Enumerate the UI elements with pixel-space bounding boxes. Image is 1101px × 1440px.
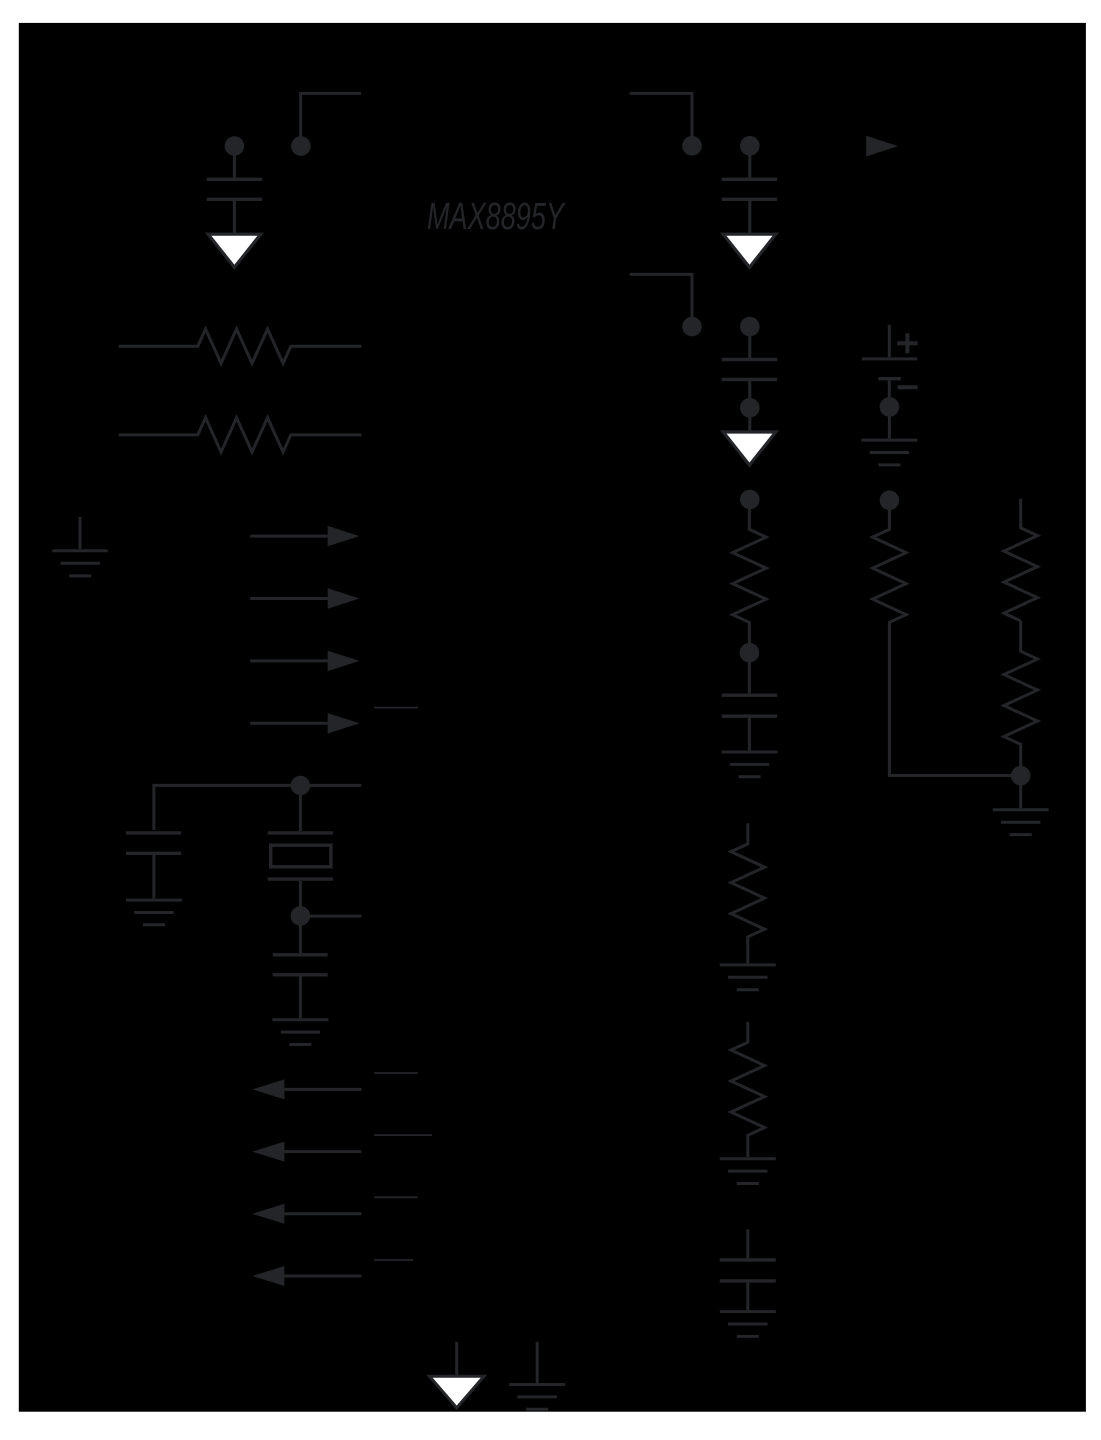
resistor R3 (vertical) [733,499,767,652]
node: junction dot [682,317,702,337]
arrow out of IC 3 [252,1204,361,1224]
overbar of pin label 3 [374,1196,417,1198]
overbar of pin label 4 [374,1259,413,1261]
node: battery minus junction dot [880,397,900,417]
wire from R6 bottom to node [889,621,1020,776]
node: junction dot below C3 [740,398,760,418]
arrow into IC 2 [250,588,359,608]
capacitor C6 [126,833,181,899]
ground power-flag triangle under C3 [723,432,776,465]
ground power-flag triangle under C2 [723,234,776,267]
node: junction dot below R3 [740,643,760,663]
capacitor C7 [273,916,328,1018]
resistor R6 (vertical) [873,500,907,622]
node: junction dot shared by R6/R7 [1011,766,1031,786]
resistor R1 (horizontal) [119,329,362,363]
resistor R2 (horizontal) [119,418,362,452]
node: C2 top junction dot [740,136,760,156]
node: C3 top junction dot [740,317,760,337]
capacitor C4 [722,653,778,751]
ground under C4 [722,752,778,777]
overbar of pin label 1 [374,1072,418,1074]
capacitor C5 [720,1229,776,1310]
resistor R5 (vertical) [731,1022,765,1157]
ground under C5 [720,1312,776,1337]
wire L-shaped second right cluster [630,274,692,327]
arrow (right-pointing) top right [866,136,898,157]
overbar of active-low pin label [374,707,418,709]
ground under C6 [126,900,182,925]
battery B1 [862,325,918,399]
arrow into IC 4 [250,713,359,733]
node: junction dot on IN wire [291,136,311,156]
node: junction dot [682,136,702,156]
ground under R7 node [993,776,1049,835]
arrow out of IC 2 [252,1142,361,1162]
ground under C7 [272,1020,328,1045]
crystal Y1 [268,785,333,907]
ground left [52,517,108,576]
capacitor C3 [722,327,778,431]
arrow into IC 1 [250,526,359,546]
overbar of pin label 2 [374,1134,432,1136]
resistor R4 (vertical) [731,823,765,963]
resistor R7 upper (vertical, far right) [1004,499,1038,621]
capacitor C2 [722,146,778,233]
ground under R5 [720,1159,776,1184]
arrow out of IC 4 [252,1266,361,1286]
node: junction dot on crystal wire [291,776,311,796]
ground power-flag triangle under C1 [208,234,261,267]
wire crystal top [154,785,361,830]
ground under R4 [720,965,776,990]
ground power-flag triangle bottom center [429,1342,484,1408]
node: junction dot under crystal [291,906,311,926]
wire L-shaped top right [630,93,692,146]
node: junction dot top of R6 [880,491,900,511]
ground under battery [861,407,917,465]
wire L-shaped to IN bypass node [301,93,361,146]
ground bottom center [509,1342,565,1410]
svg-text:MAX8895Y: MAX8895Y [427,196,566,238]
arrow into IC 3 [250,651,359,671]
node: C1 top junction dot [225,136,245,156]
node: junction dot top of R3 [740,490,760,510]
capacitor C1 [207,146,263,233]
wire right of crystal bottom node [300,915,361,918]
resistor R7 lower (vertical, far right) [1004,621,1038,770]
arrow out of IC 1 [252,1079,361,1099]
